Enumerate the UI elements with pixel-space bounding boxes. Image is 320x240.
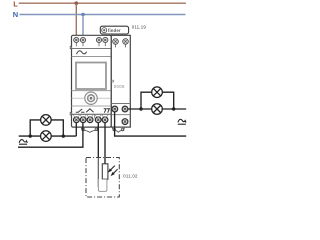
wire neutral return left	[18, 120, 83, 147]
wire left lamp parallel branch	[30, 120, 63, 136]
brand logo dot	[103, 29, 105, 31]
lamp E3	[152, 87, 163, 98]
relay top screw slots	[114, 40, 126, 42]
panel divider below button	[72, 105, 112, 107]
svg-text:011,02: 011,02	[123, 174, 138, 179]
panel divider above button	[72, 90, 112, 92]
left module top terminal screws	[74, 37, 108, 42]
lamp E4	[152, 104, 163, 115]
photoresistor housing	[98, 179, 107, 191]
terminal group separator tick	[93, 114, 95, 118]
sensor enclosure dash-dot box	[86, 158, 119, 198]
left module fixing tabs	[70, 46, 71, 115]
terminal divider across device	[72, 47, 131, 49]
bottom terminal block top	[72, 113, 112, 115]
wire N drop to supply terminal	[82, 15, 84, 41]
left module bottom terminal screws	[74, 117, 108, 123]
relay bottom block top line	[111, 103, 130, 105]
twilight switch U1 left module body	[72, 35, 112, 127]
wire right lamp feed	[127, 108, 186, 110]
svg-text:L: L	[13, 0, 18, 9]
lamp E2	[41, 131, 52, 142]
top screw stems	[76, 43, 105, 47]
wire L drop to supply terminal	[75, 3, 77, 40]
wire riser to terminal 1	[75, 120, 77, 136]
svg-text:0008: 0008	[114, 84, 125, 89]
svg-text:011,19: 011,19	[132, 24, 147, 29]
relay top screw stems	[116, 44, 126, 47]
LCD display	[76, 63, 106, 90]
svg-text:N: N	[13, 10, 18, 19]
relay bottom block mid line	[111, 114, 130, 116]
relay module body	[111, 35, 130, 127]
continuation symbol right	[178, 119, 186, 122]
small o marking	[112, 80, 114, 82]
relay module top screws	[113, 39, 129, 45]
junction left lamp branch B	[62, 134, 65, 137]
light arrow 1	[109, 166, 115, 172]
icon contact symbol 2	[86, 109, 93, 112]
wire sensor lead left	[97, 120, 99, 158]
svg-text:finder: finder	[108, 28, 121, 33]
junction on L line	[75, 1, 79, 5]
light arrow 2	[112, 169, 118, 175]
continuation symbol left	[19, 140, 27, 143]
junction right lamp branch A	[139, 107, 142, 110]
photoresistor B1 body	[102, 164, 108, 179]
wire right lamp parallel branch	[141, 92, 174, 109]
second divider across device	[72, 56, 131, 58]
rotary button	[85, 92, 97, 104]
continuation underline left	[19, 143, 27, 145]
junction on N line	[81, 13, 85, 17]
relay bottom screw slots	[114, 108, 127, 123]
DIN clip relay module	[112, 128, 124, 133]
lamp E1	[41, 115, 52, 126]
icon 77 mark	[104, 109, 110, 113]
brand logo circle	[102, 28, 107, 33]
wire sensor lead right	[104, 120, 106, 164]
junction right lamp branch B	[172, 107, 175, 110]
panel seam beside button	[72, 97, 112, 99]
wire N neutral line	[19, 14, 185, 16]
AC supply tilde symbol	[77, 51, 87, 54]
relay module bottom screws	[112, 106, 128, 124]
icon contact symbol 1	[76, 109, 85, 112]
top screw slots	[75, 39, 106, 41]
DIN clip left module	[81, 128, 98, 133]
continuation underline right	[178, 123, 186, 125]
brand logo bar	[100, 26, 128, 34]
wire neutral return right	[115, 111, 187, 136]
wire lamp feed line left	[19, 135, 77, 137]
junction left lamp branch A	[29, 134, 32, 137]
wire L phase line	[19, 2, 186, 4]
bottom screw cross slots	[75, 119, 106, 121]
